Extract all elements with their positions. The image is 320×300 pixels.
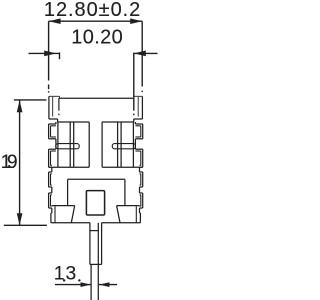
- svg-text:19: 19: [1, 152, 18, 173]
- svg-text:10.20: 10.20: [71, 27, 123, 49]
- svg-text:12.80±0.2: 12.80±0.2: [44, 0, 140, 21]
